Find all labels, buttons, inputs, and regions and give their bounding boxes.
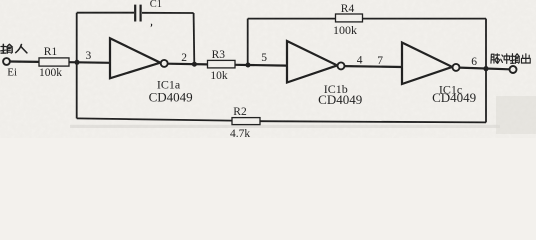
wire: R4 right segment to right vertical xyxy=(363,18,487,20)
svg-text:6: 6 xyxy=(471,56,477,68)
wire: C1 top right segment xyxy=(142,12,194,14)
svg-text:4.7k: 4.7k xyxy=(230,128,250,138)
svg-text:10k: 10k xyxy=(210,70,228,82)
svg-text:Ei: Ei xyxy=(7,66,17,78)
node 2 xyxy=(192,62,197,67)
svg-text:CD4049: CD4049 xyxy=(318,92,362,107)
svg-text:R3: R3 xyxy=(212,49,226,61)
resistor R1 xyxy=(39,58,69,66)
wire: R1 to IC1a input xyxy=(69,61,110,64)
label 输入 (input) xyxy=(1,44,27,53)
wire: R3 to IC1b input xyxy=(235,64,287,67)
speck artifact under C1 xyxy=(150,24,152,28)
wire: node5 vertical up to R4 xyxy=(247,19,249,65)
label 脉冲输出 (pulse output) xyxy=(491,54,530,64)
wire: C1 top left segment xyxy=(77,12,134,14)
wire: R4 left segment xyxy=(248,18,336,20)
svg-text:R1: R1 xyxy=(44,46,58,58)
svg-text:3: 3 xyxy=(86,50,92,62)
resistor R3 xyxy=(208,60,236,68)
node 6 xyxy=(483,66,488,71)
svg-text:100k: 100k xyxy=(39,67,62,79)
resistor R4 xyxy=(336,14,363,22)
wire: main rail input to R1 xyxy=(10,60,39,63)
capacitor C1 xyxy=(135,5,140,22)
wire: right vertical (R4 down through node6 to R2) xyxy=(485,19,487,123)
inverter IC1a xyxy=(110,38,160,78)
resistor R2 xyxy=(232,118,260,125)
svg-text:C1: C1 xyxy=(150,0,162,10)
inverter IC1c xyxy=(402,43,452,85)
input terminal circle xyxy=(3,58,10,65)
wire: C1 right vertical down to node 2 xyxy=(193,13,196,64)
inverter IC1b xyxy=(287,41,337,83)
svg-text:5: 5 xyxy=(261,52,267,64)
node 5 xyxy=(246,63,251,68)
output terminal circle xyxy=(510,66,517,73)
wire: left vertical (node3 up to C1, down to R2) xyxy=(76,13,78,119)
svg-text:2: 2 xyxy=(181,52,187,64)
wire: IC1c out to output xyxy=(459,68,509,70)
svg-text:7: 7 xyxy=(377,55,383,67)
svg-text:4: 4 xyxy=(357,54,363,66)
svg-text:CD4049: CD4049 xyxy=(432,90,476,105)
node 3 xyxy=(75,60,80,65)
wire: bottom R2 left segment xyxy=(77,118,232,120)
svg-text:R2: R2 xyxy=(233,106,247,118)
svg-text:R4: R4 xyxy=(341,3,355,15)
wire: IC1a out to R3 xyxy=(168,63,208,66)
svg-text:100k: 100k xyxy=(333,23,357,37)
svg-text:CD4049: CD4049 xyxy=(149,90,193,105)
wire: IC1b out to IC1c xyxy=(344,65,402,68)
wire: bottom R2 right segment xyxy=(260,121,486,122)
